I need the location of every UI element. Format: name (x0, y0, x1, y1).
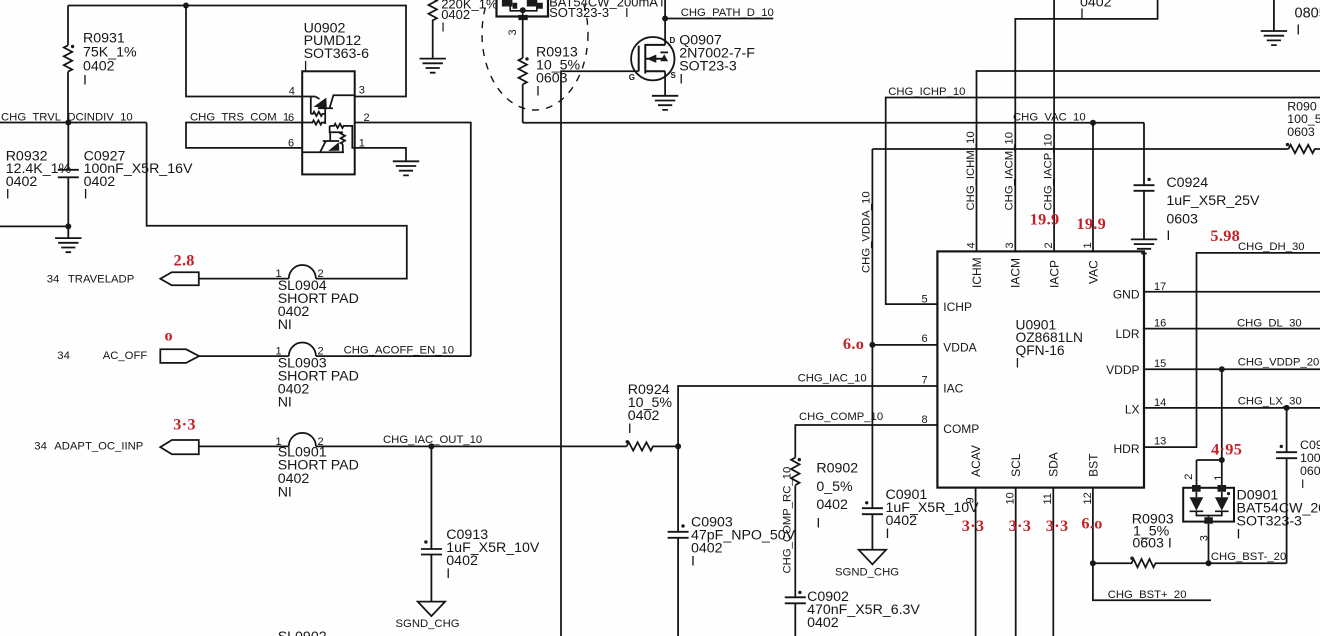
wire drain feed from top edge (664, 0, 666, 45)
svg-text:100: 100 (1300, 451, 1320, 465)
IC U0901 box (937, 251, 1144, 487)
svg-text:I: I (536, 83, 540, 99)
svg-text:S: S (671, 71, 677, 80)
svg-text:COMP: COMP (943, 422, 979, 436)
svg-text:TRAVELADP: TRAVELADP (68, 274, 134, 286)
short pad SL0904 (289, 265, 316, 279)
U0902 internal transistor top (303, 95, 355, 124)
svg-text:CHG_IAC_OUT_10: CHG_IAC_OUT_10 (383, 434, 482, 446)
svg-text:CHG_ICHP_10: CHG_ICHP_10 (888, 86, 965, 98)
wire TRAVELADP to SL0904 (199, 278, 289, 280)
svg-text:34: 34 (47, 274, 60, 286)
wire CHG_IACP_10 (1053, 0, 1055, 251)
short pad SL0901 (289, 433, 316, 447)
svg-text:19.9: 19.9 (1030, 210, 1060, 229)
svg-text:34: 34 (34, 441, 47, 453)
svg-text:9: 9 (965, 497, 977, 503)
wire CHG_IAC_10 (678, 386, 937, 446)
node CHG_IAC_OUT junction (428, 443, 434, 449)
connector TRAVELADP (160, 272, 199, 285)
resistor 220K (429, 0, 437, 59)
svg-text:I: I (6, 187, 10, 203)
wire SDA pin 11 (1052, 488, 1054, 636)
svg-text:LDR: LDR (1115, 327, 1139, 341)
IC U0902 box (302, 71, 355, 174)
capacitor C0901 (862, 508, 883, 550)
wire CHG_PATH_D_10 (665, 18, 773, 20)
svg-text:SOT323-3: SOT323-3 (1237, 514, 1303, 530)
svg-text:BST: BST (1086, 453, 1100, 477)
svg-text:1uF_X5R_25V: 1uF_X5R_25V (1166, 193, 1260, 209)
svg-text:0402: 0402 (84, 174, 116, 190)
svg-text:CHG_DH_30: CHG_DH_30 (1238, 241, 1305, 253)
wire Q0907 gate drop (561, 71, 639, 636)
svg-text:CHG_VDDP_20: CHG_VDDP_20 (1238, 356, 1320, 368)
svg-text:4: 4 (965, 242, 977, 248)
svg-text:0805: 0805 (1295, 6, 1320, 22)
wire CHG_TRVL down to TRAVELADP row (147, 123, 407, 279)
node VDDP junction (1219, 366, 1225, 372)
svg-text:CHG_IACM_10: CHG_IACM_10 (1004, 132, 1016, 210)
node D0901 pin1 junction (1219, 457, 1225, 463)
svg-text:VAC: VAC (1086, 260, 1100, 284)
svg-text:4: 4 (289, 86, 295, 98)
svg-text:SOT363-6: SOT363-6 (304, 46, 370, 62)
wire CHG_VDDA_10 (871, 149, 873, 508)
capacitor C0927 (58, 123, 79, 227)
svg-text:D: D (670, 36, 676, 45)
node top rail junction (183, 3, 189, 9)
node CHG_TRVL junction (65, 120, 71, 126)
wire LDR pin 16 (1144, 328, 1320, 330)
svg-text:15: 15 (1154, 358, 1166, 370)
svg-text:I: I (1016, 356, 1020, 371)
svg-text:17: 17 (1154, 281, 1166, 293)
svg-text:NI: NI (278, 317, 292, 333)
svg-text:I: I (660, 0, 664, 10)
svg-text:CHG_PATH_D_10: CHG_PATH_D_10 (681, 7, 774, 19)
svg-text:I: I (628, 421, 632, 437)
capacitor C0924 (1134, 123, 1155, 240)
wire BST pin 12 (1092, 488, 1094, 564)
svg-text:I: I (84, 187, 88, 203)
wire U0901 pin 6 stub (872, 344, 937, 346)
svg-text:0_5%: 0_5% (816, 479, 853, 495)
svg-text:14: 14 (1154, 397, 1166, 409)
svg-text:I: I (1237, 527, 1241, 543)
svg-text:2: 2 (364, 112, 370, 124)
svg-text:CHG_TRS_COM_1: CHG_TRS_COM_1 (190, 111, 289, 123)
svg-text:I: I (886, 526, 890, 542)
svg-text:3·3: 3·3 (173, 415, 196, 434)
wire ADAPT_OC_IINP to SL0901 (199, 445, 289, 447)
svg-text:I: I (441, 20, 445, 35)
svg-text:NI: NI (278, 485, 292, 501)
U0902 internal pin5 resistor (303, 120, 326, 124)
svg-text:0402: 0402 (807, 615, 839, 631)
svg-text:060: 060 (1300, 464, 1320, 478)
svg-text:R0902: R0902 (816, 461, 858, 477)
wire left edge to C0927 foot (0, 225, 68, 227)
node R0924 right junction (675, 443, 681, 449)
short pad SL0903 (289, 343, 316, 357)
svg-text:IACM: IACM (1009, 258, 1023, 288)
svg-text:8: 8 (922, 414, 928, 426)
svg-text:SOT23-3: SOT23-3 (679, 59, 737, 75)
svg-text:CHG_COMP_10: CHG_COMP_10 (799, 411, 883, 423)
wire GND pin 17 (1144, 291, 1320, 293)
svg-text:7: 7 (922, 374, 928, 386)
svg-text:CHG_ICHM_10: CHG_ICHM_10 (965, 131, 977, 210)
svg-text:SCL: SCL (1009, 453, 1023, 477)
svg-text:I: I (446, 566, 450, 582)
svg-text:CHG_IAC_10: CHG_IAC_10 (798, 373, 867, 385)
ground SGND_CHG at C0901 (859, 550, 886, 565)
svg-text:13: 13 (1154, 436, 1166, 448)
svg-text:C0924: C0924 (1166, 175, 1208, 191)
wire LX pin 14 (1144, 407, 1320, 409)
wire VDDP pin 15 (1144, 368, 1320, 370)
svg-text:HDR: HDR (1114, 442, 1140, 456)
connector AC_OFF (160, 349, 199, 363)
svg-text:3: 3 (1004, 242, 1016, 248)
wire VDDA rail to R0905 (872, 148, 1288, 150)
svg-text:0402: 0402 (6, 174, 38, 190)
svg-text:0402: 0402 (628, 408, 660, 424)
svg-text:6: 6 (288, 137, 294, 149)
svg-text:SDA: SDA (1047, 452, 1061, 477)
svg-text:0402: 0402 (83, 59, 115, 75)
svg-text:SOT323-3: SOT323-3 (549, 5, 609, 20)
svg-text:AC_OFF: AC_OFF (103, 350, 148, 362)
wire BAT54CW pin 3 to R0913 (522, 17, 524, 59)
resistor R0913 (519, 58, 527, 123)
svg-text:I: I (1301, 477, 1304, 491)
svg-text:6: 6 (288, 112, 294, 124)
wire CHG_ACOFF_EN_10 (316, 355, 471, 357)
wire top rail (68, 6, 406, 97)
svg-text:10: 10 (1005, 492, 1017, 504)
svg-text:12: 12 (1082, 492, 1094, 504)
svg-text:ICHM: ICHM (970, 257, 984, 288)
wire R0902 to C0902 (794, 485, 796, 597)
node LX junction (1284, 405, 1290, 411)
node CHG_BST- junction (1206, 560, 1212, 566)
svg-text:I: I (1166, 228, 1170, 244)
svg-text:CHG_VDDA_10: CHG_VDDA_10 (861, 191, 873, 273)
connector ADAPT_OC_IINP (160, 440, 199, 454)
svg-text:CHG_ACOFF_EN_10: CHG_ACOFF_EN_10 (344, 345, 455, 357)
svg-text:NI: NI (278, 395, 292, 411)
svg-text:1: 1 (359, 137, 365, 149)
node BST junction (1090, 560, 1096, 566)
wire CHG_COMP_10 (795, 425, 937, 458)
wire CHG_DH_30 to HDR pin 13 (1144, 253, 1320, 447)
node C0927 foot junction (65, 223, 71, 229)
svg-text:CHG_TRVL_DCINDIV_10: CHG_TRVL_DCINDIV_10 (1, 111, 133, 123)
svg-text:CHG_COMP_RC_10: CHG_COMP_RC_10 (782, 467, 794, 574)
svg-text:16: 16 (1154, 318, 1166, 330)
svg-text:0603: 0603 (1287, 125, 1315, 139)
diode D0901 BAT54CW package (1183, 488, 1234, 522)
svg-text:I: I (625, 5, 629, 20)
svg-text:34: 34 (57, 350, 70, 362)
wire D0901 pin 3 (1208, 524, 1210, 563)
svg-text:0603 I: 0603 I (1132, 535, 1171, 551)
resistor R0905 (1288, 145, 1320, 153)
wire to U0902 pin 4 (186, 6, 302, 97)
resistor R0902 (791, 458, 799, 486)
svg-text:6.o: 6.o (1081, 514, 1102, 533)
svg-text:CHG_BST-_20: CHG_BST-_20 (1211, 551, 1286, 563)
wire CHG_IACM_10 (1015, 0, 1157, 251)
svg-text:SGND_CHG: SGND_CHG (396, 618, 460, 630)
resistor R0903 (1093, 559, 1287, 567)
wire SCL pin 10 (1015, 488, 1017, 636)
svg-text:CHG_LX_30: CHG_LX_30 (1238, 396, 1302, 408)
dashed ellipse highlight (482, 0, 588, 110)
svg-text:I: I (1296, 22, 1300, 38)
svg-text:ACAV: ACAV (969, 445, 983, 477)
svg-text:QFN-16: QFN-16 (1016, 343, 1065, 358)
ground at U0902 pin 1 (393, 161, 419, 175)
svg-text:SL0902: SL0902 (278, 629, 327, 636)
svg-text:GND: GND (1113, 287, 1140, 301)
svg-text:0402: 0402 (1080, 0, 1112, 11)
resistor R0931 (64, 6, 72, 123)
svg-text:11: 11 (1042, 493, 1054, 504)
svg-text:SGND_CHG: SGND_CHG (835, 567, 899, 579)
diode D0913 BAT54CW package (497, 0, 549, 17)
wire CHG_ICHM_10 (977, 71, 1320, 251)
svg-text:VDDA: VDDA (943, 341, 976, 355)
svg-text:5: 5 (922, 293, 928, 305)
svg-text:ICHP: ICHP (943, 300, 972, 314)
svg-text:CHG_DL_30: CHG_DL_30 (1237, 318, 1302, 330)
svg-text:1: 1 (1213, 475, 1225, 481)
svg-text:3: 3 (1199, 535, 1211, 541)
svg-text:4·95: 4·95 (1211, 439, 1242, 458)
transistor Q0907 (631, 37, 674, 80)
svg-text:CHG_BST+_20: CHG_BST+_20 (1108, 589, 1187, 601)
wire ACAV pin 9 (975, 488, 977, 636)
svg-text:6.o: 6.o (843, 334, 864, 353)
svg-text:I: I (816, 515, 820, 531)
wire VAC pin 1 (1092, 123, 1094, 252)
capacitor C0913 (421, 446, 442, 601)
svg-text:CHG_VAC_10: CHG_VAC_10 (1013, 111, 1086, 123)
ground at C0927 (55, 226, 81, 252)
ground SGND_CHG at C0913 (418, 602, 445, 617)
svg-text:0402: 0402 (446, 553, 478, 569)
ground top right 0805 (1261, 0, 1287, 45)
wire CHG_IAC_OUT_10 (316, 445, 627, 447)
svg-text:I: I (83, 73, 87, 89)
svg-text:IAC: IAC (943, 382, 963, 396)
svg-text:G: G (629, 73, 635, 82)
svg-text:5.98: 5.98 (1210, 226, 1240, 245)
ground at C0924 (1131, 239, 1157, 253)
wire VDDP branch to D0901 (1197, 369, 1222, 485)
svg-text:0402: 0402 (886, 513, 918, 529)
ground at 220K (420, 59, 446, 73)
wire AC_OFF to SL0903 (199, 355, 289, 357)
svg-text:CHG_IACP_10: CHG_IACP_10 (1042, 134, 1054, 211)
node VAC pin1 junction (1090, 120, 1096, 126)
capacitor C0903 (668, 446, 689, 636)
ground at Q0907 source (652, 96, 678, 110)
wire U0902 pins 5-6 tie (186, 123, 302, 148)
svg-text:0402: 0402 (691, 541, 723, 557)
svg-text:3: 3 (359, 85, 365, 97)
wire U0902 pin 2 to CHG_ACOFF_EN (355, 123, 471, 357)
svg-text:0603: 0603 (1166, 211, 1198, 227)
svg-text:2: 2 (1043, 242, 1055, 248)
svg-text:I: I (691, 554, 695, 570)
svg-text:3·3: 3·3 (1009, 516, 1032, 535)
node VDDA pin 6 junction (869, 342, 875, 348)
svg-text:1: 1 (1082, 242, 1094, 248)
svg-text:I: I (679, 72, 683, 88)
svg-text:o: o (165, 326, 173, 345)
U0902 internal transistor bottom (303, 124, 355, 153)
wire U0902 pin 1 to ground (355, 148, 406, 161)
node CHG_PATH_D junction (662, 16, 668, 22)
wire Q0907 source to ground (664, 71, 666, 96)
svg-text:I: I (304, 59, 308, 75)
svg-text:C09: C09 (1300, 438, 1320, 452)
svg-text:I: I (1080, 6, 1084, 22)
svg-text:3: 3 (507, 29, 519, 35)
svg-text:6: 6 (922, 333, 928, 345)
resistor R0924 (627, 442, 679, 450)
wire CHG_VAC_10 (523, 122, 1144, 124)
svg-text:2.8: 2.8 (174, 251, 195, 270)
svg-text:0402: 0402 (816, 497, 848, 513)
capacitor C0902 (785, 597, 806, 636)
svg-text:3·3: 3·3 (1046, 516, 1069, 535)
svg-text:19.9: 19.9 (1076, 214, 1106, 233)
svg-text:3·3: 3·3 (962, 516, 985, 535)
svg-text:VDDP: VDDP (1106, 363, 1139, 377)
svg-text:0603: 0603 (536, 70, 568, 86)
wire CHG_BST+_20 (1093, 563, 1211, 600)
svg-text:ADAPT_OC_IINP: ADAPT_OC_IINP (54, 441, 143, 453)
wire CHG_ICHP_10 (886, 98, 1320, 305)
svg-text:LX: LX (1125, 402, 1140, 416)
capacitor C0906 right edge (1276, 408, 1297, 563)
wire CHG_TRVL_DCINDIV_10 (0, 122, 147, 124)
svg-text:2: 2 (1183, 474, 1195, 480)
svg-text:IACP: IACP (1047, 260, 1061, 288)
svg-text:0402: 0402 (441, 7, 470, 22)
